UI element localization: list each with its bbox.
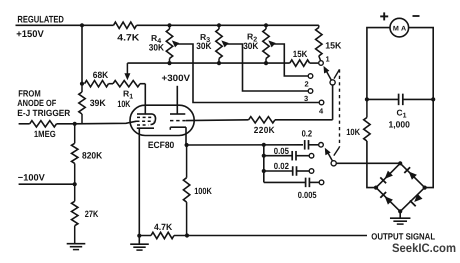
wire meter right to bridge right vertex bbox=[425, 99, 434, 187]
wire R4 wiper arm to switch contact 4 bbox=[172, 40, 319, 102]
switch S2 wiper arm bbox=[325, 148, 337, 166]
node cap 0.05 junction bbox=[262, 154, 266, 158]
resistor 10K bbox=[346, 99, 370, 141]
wire R1 to pentode plate bbox=[140, 83, 145, 85]
wire R1 wiper up to divider rail bbox=[124, 63, 130, 80]
svg-text:1,000: 1,000 bbox=[389, 120, 410, 130]
meter + terminal label bbox=[380, 12, 388, 20]
resistor 27K bbox=[72, 184, 99, 244]
wire -100V lead bbox=[19, 183, 75, 185]
resistor 820K bbox=[72, 124, 103, 184]
capacitor 0.2 bbox=[302, 128, 319, 149]
svg-text:30K: 30K bbox=[243, 41, 259, 51]
node R2 bottom junction bbox=[264, 61, 268, 65]
resistor 39K bbox=[79, 84, 106, 124]
svg-text:FROM: FROM bbox=[18, 88, 41, 98]
wire input lead bbox=[19, 123, 30, 125]
svg-text:30K: 30K bbox=[196, 41, 212, 51]
wire bridge edge top-left bbox=[376, 163, 400, 187]
potentiometer R4 30K bbox=[149, 25, 173, 63]
wire output signal line bbox=[187, 235, 367, 237]
tube triode plate bbox=[170, 113, 185, 115]
node R2 top junction bbox=[264, 23, 268, 27]
node 68K left junction bbox=[80, 82, 84, 86]
svg-text:68K: 68K bbox=[93, 70, 109, 80]
tube ECF80 envelope bbox=[130, 105, 194, 135]
svg-text:1MEG: 1MEG bbox=[34, 129, 56, 139]
svg-text:30K: 30K bbox=[149, 42, 165, 52]
wire meter right lead bbox=[409, 28, 434, 100]
node R3 top junction bbox=[217, 23, 221, 27]
svg-text:+300V: +300V bbox=[162, 73, 192, 83]
wire R3 wiper arm to switch contact 3 bbox=[221, 40, 308, 91]
wire S2 wiper to bridge top vertex bbox=[336, 162, 400, 164]
resistor 15K horizontal (range) bbox=[290, 49, 310, 66]
resistor 220K bbox=[249, 117, 275, 136]
ground bridge stem bbox=[399, 211, 401, 218]
wire meter left lead bbox=[367, 28, 390, 100]
wire S1 wiper to 220K bbox=[332, 85, 334, 120]
wire +150V rail right segment bbox=[137, 24, 319, 26]
resistor 1MEG bbox=[30, 121, 57, 139]
svg-text:15K: 15K bbox=[325, 41, 342, 51]
svg-text:1: 1 bbox=[326, 55, 330, 64]
svg-text:+150V: +150V bbox=[16, 29, 44, 40]
node junction rail to 68K branch bbox=[80, 23, 84, 27]
wire 68K to R1 bbox=[109, 83, 114, 85]
node bridge right vertex bbox=[423, 186, 427, 190]
node R4 bottom junction bbox=[167, 61, 171, 65]
meter M1 MA bbox=[390, 18, 409, 37]
svg-text:SeekIC.com: SeekIC.com bbox=[392, 241, 456, 255]
resistor 4.7K (plate supply dropper) bbox=[114, 22, 140, 42]
svg-text:3: 3 bbox=[304, 94, 308, 103]
node bridge top vertex bbox=[398, 161, 402, 165]
resistor 15K vertical (range) bbox=[316, 25, 342, 60]
node input label FROM ANODE OF E-J TRIGGER bbox=[17, 88, 70, 118]
tube pentode grids (dashed) bbox=[137, 117, 154, 125]
ground below 27K bbox=[67, 244, 86, 250]
ground pentode cathode stem bbox=[138, 236, 140, 245]
node -100V junction bbox=[73, 182, 77, 186]
node cap bus top junction bbox=[262, 143, 266, 147]
svg-text:10K: 10K bbox=[346, 127, 360, 137]
svg-text:E-J TRIGGER: E-J TRIGGER bbox=[17, 108, 70, 118]
svg-text:0.005: 0.005 bbox=[298, 190, 317, 200]
svg-text:0.2: 0.2 bbox=[302, 128, 313, 138]
node grid junction bbox=[73, 122, 77, 126]
node C1 left junction bbox=[365, 97, 369, 101]
wire 15K to contact 1 bbox=[310, 62, 319, 64]
wire +300V to triode plate bbox=[162, 73, 192, 114]
svg-text:820K: 820K bbox=[82, 151, 103, 161]
svg-text:0.02: 0.02 bbox=[274, 161, 289, 171]
switch S1 contact 3 bbox=[304, 89, 313, 103]
svg-text:ANODE OF: ANODE OF bbox=[17, 98, 56, 108]
svg-text:100K: 100K bbox=[194, 186, 212, 196]
wire bridge edge top-right bbox=[400, 163, 425, 187]
capacitor 0.005 bbox=[264, 178, 319, 200]
tube triode grid (dashed) bbox=[170, 120, 186, 122]
svg-text:ECF80: ECF80 bbox=[148, 140, 174, 150]
switch S2 contact 0.02 bbox=[309, 169, 314, 174]
capacitor C1 1,000 bbox=[367, 94, 433, 130]
potentiometer R3 30K bbox=[196, 25, 222, 63]
node output junction bbox=[185, 233, 189, 237]
svg-text:−100V: −100V bbox=[18, 172, 46, 182]
wire divider rail (R1 wiper to R-pots bottoms) bbox=[127, 62, 289, 64]
node R4 top junction bbox=[167, 23, 171, 27]
wire cathode junction to capacitor bank bbox=[187, 144, 303, 146]
svg-text:OUTPUT SIGNAL: OUTPUT SIGNAL bbox=[371, 231, 435, 241]
svg-text:10K: 10K bbox=[117, 99, 130, 109]
svg-text:220K: 220K bbox=[254, 125, 275, 135]
node bridge bottom vertex bbox=[398, 209, 402, 213]
svg-text:27K: 27K bbox=[85, 209, 99, 219]
tube pentode cathode bbox=[137, 127, 154, 129]
resistor 68K bbox=[85, 70, 109, 87]
wire triode grid to 220K bbox=[186, 119, 249, 122]
tube triode cathode bbox=[170, 127, 186, 130]
wire 220K to S1 wiper bbox=[275, 119, 333, 121]
svg-text:2: 2 bbox=[305, 80, 309, 89]
resistor 4.7K cathode bbox=[139, 222, 187, 239]
potentiometer R2 30K bbox=[243, 25, 269, 63]
svg-text:M A: M A bbox=[393, 25, 407, 32]
svg-text:4.7K: 4.7K bbox=[154, 222, 173, 232]
switch S2 contact 0.005 bbox=[319, 180, 324, 185]
svg-text:39K: 39K bbox=[90, 98, 106, 108]
switch S1 wiper arm bbox=[324, 66, 336, 85]
node cathode ground junction bbox=[137, 234, 141, 238]
capacitor 0.02 bbox=[264, 161, 309, 176]
wire triode cathode lead down bbox=[185, 127, 187, 145]
svg-text:REGULATED: REGULATED bbox=[17, 14, 64, 25]
diode D4 (right to bottom) bbox=[410, 194, 423, 207]
switch S1 contact 1 bbox=[319, 55, 330, 66]
node bridge left vertex bbox=[374, 186, 378, 190]
switch S1 contact 2 bbox=[305, 74, 313, 89]
wire +150V rail left segment bbox=[16, 24, 114, 26]
wire 1MEG to grid junction bbox=[57, 123, 75, 125]
wire bridge edge bottom-right bbox=[400, 188, 425, 212]
node R3 bottom junction bbox=[217, 61, 221, 65]
wire branch down to 68K bbox=[81, 25, 83, 83]
node C1 right junction bbox=[431, 97, 435, 101]
svg-text:15K: 15K bbox=[293, 49, 308, 59]
meter - terminal label bbox=[413, 15, 420, 17]
diode D1 (top to left) bbox=[380, 171, 393, 184]
wire bridge edge bottom-left bbox=[376, 188, 400, 212]
wire cap bus vertical bbox=[263, 145, 265, 183]
potentiometer R1 10K bbox=[113, 81, 140, 110]
node 100K top junction bbox=[185, 143, 189, 147]
node cap 0.02 junction bbox=[262, 169, 266, 173]
wire pentode plate lead from R1 bbox=[144, 84, 146, 114]
wire junction to pentode grid bbox=[75, 121, 137, 124]
diode D3 (bottom to left) bbox=[380, 192, 393, 205]
wire 10K to bridge left vertex bbox=[367, 141, 376, 188]
switch S1 contact 4 bbox=[319, 100, 324, 115]
tube pentode plate bbox=[137, 114, 156, 125]
resistor 100K bbox=[183, 145, 212, 236]
ground below cathode bbox=[130, 244, 149, 250]
wire R2 wiper arm to switch contact 2 bbox=[268, 40, 308, 76]
switch gang link (dashed) bbox=[334, 69, 340, 155]
switch S2 contact 0.2 bbox=[319, 143, 324, 148]
wire pentode cathode lead bbox=[138, 128, 140, 236]
ground below bridge bbox=[390, 218, 410, 224]
node +150V regulated supply label bbox=[16, 14, 64, 40]
capacitor 0.05 bbox=[264, 146, 309, 161]
svg-text:0.05: 0.05 bbox=[274, 146, 289, 156]
svg-text:4.7K: 4.7K bbox=[117, 32, 139, 42]
switch S2 contact 0.05 bbox=[309, 153, 314, 158]
diode D2 (right to top) bbox=[404, 167, 417, 180]
